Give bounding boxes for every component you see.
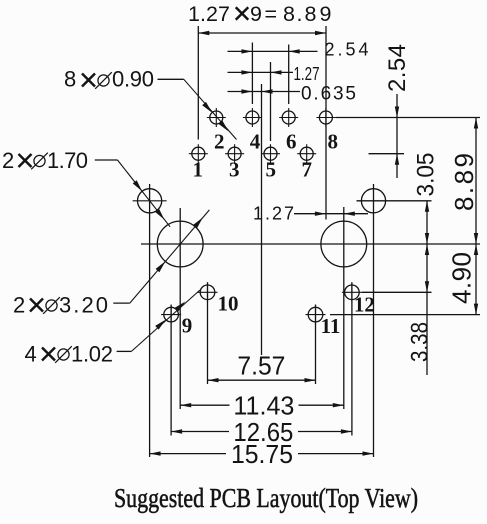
wire center line (261, 84, 263, 355)
svg-text:2: 2 (13, 293, 25, 318)
leader 2x1.70 to hole (95, 160, 170, 227)
pad number 2 (214, 130, 225, 154)
pad number 1 (193, 158, 204, 182)
pad number 9 (182, 314, 193, 338)
pad number 12 (354, 293, 375, 317)
svg-text:7.57: 7.57 (237, 350, 285, 380)
pad number 7 (302, 158, 313, 182)
wire extension line pad4 column (251, 43, 253, 105)
dimension line 11.43 (180, 403, 344, 407)
dimension line 7.57 (208, 378, 316, 382)
pad 3 (225, 144, 244, 163)
dimension line 15.75 (150, 451, 374, 455)
svg-text:1.27: 1.27 (294, 64, 320, 84)
svg-text:12: 12 (354, 293, 375, 317)
svg-text:8: 8 (328, 130, 339, 154)
dimension line 12.65 (171, 429, 352, 433)
label 3.38 (407, 322, 434, 362)
pad 7 (297, 144, 316, 163)
svg-text:0.635: 0.635 (301, 84, 356, 105)
dimension line 1.27 pads (228, 70, 294, 74)
svg-text:8: 8 (64, 67, 76, 92)
wire extension line hole 1.70 right column (373, 184, 375, 457)
label 11.43 (233, 391, 294, 421)
svg-text:11: 11 (321, 314, 341, 338)
label 4.90 (446, 252, 476, 304)
hole 3.20 left (157, 221, 203, 267)
wire extension line holes row 244 (141, 243, 480, 245)
svg-text:6: 6 (286, 130, 297, 154)
svg-text:1.02: 1.02 (71, 342, 113, 367)
label 1.27 hole offset (253, 204, 294, 224)
label 3.05 (413, 153, 440, 197)
label 1.27 pads (294, 64, 320, 84)
pad 6 (279, 108, 298, 127)
svg-text:1.27: 1.27 (253, 204, 294, 224)
svg-text:4.90: 4.90 (446, 252, 476, 304)
dimension line 0.635 (228, 89, 301, 93)
wire extension line hole 3.20 left column (179, 208, 181, 409)
svg-text:4: 4 (25, 342, 37, 367)
svg-text:5: 5 (266, 158, 277, 182)
dimension line 2.54 pads (228, 49, 318, 53)
label 2x1.70 (2, 148, 88, 173)
svg-text:0.90: 0.90 (112, 67, 154, 92)
pad number 3 (229, 158, 240, 182)
pad 11 (306, 305, 326, 325)
wire extension line pad8 row (336, 117, 481, 119)
label 2.54 pads (325, 40, 369, 60)
svg-text:1.27: 1.27 (188, 2, 230, 26)
pad 4 (243, 108, 262, 127)
label 8.89 (449, 153, 479, 211)
wire extension line pad11 column (315, 305, 317, 384)
pad 9 (161, 305, 181, 325)
wire extension line row 1357 (369, 153, 405, 155)
leader 2x3.20 to hole (113, 210, 209, 303)
leader 8x0.90 to pad 2 (158, 79, 237, 139)
hole 3.20 right (321, 221, 367, 267)
hole 1.70 right (361, 189, 385, 213)
dimension line 8.89 (474, 118, 478, 315)
svg-text:15.75: 15.75 (231, 439, 293, 469)
wire extension line pad12 column (351, 282, 353, 435)
wire extension line hole 3.20 right column (343, 207, 345, 409)
label 1.27x9=8.89 (188, 2, 331, 26)
wire extension line hole 1.70 right row (357, 200, 432, 202)
svg-text:2.54: 2.54 (325, 40, 369, 60)
pad number 4 (250, 130, 261, 154)
label 2x3.20 (13, 293, 108, 318)
hole 1.70 left (133, 189, 167, 213)
svg-text:9: 9 (182, 314, 193, 338)
wire extension line pad10 column (207, 282, 209, 384)
label 4x1.02 (25, 342, 114, 367)
wire extension line pads 9 11 row (330, 314, 480, 316)
pad number 10 (218, 292, 239, 316)
svg-text:3.05: 3.05 (413, 153, 440, 197)
label 2.54 rows (384, 44, 411, 92)
pad 5 (261, 144, 280, 163)
wire extension line pad6 column (288, 45, 290, 105)
pad number 5 (266, 158, 277, 182)
label 7.57 (237, 350, 285, 380)
wire extension line pad5 column (270, 62, 272, 141)
pad number 8 (328, 130, 339, 154)
svg-text:3: 3 (229, 158, 240, 182)
label 0.635 (301, 84, 356, 105)
svg-text:2: 2 (214, 130, 225, 154)
svg-text:7: 7 (302, 158, 313, 182)
dimension arrows 3.38 (425, 244, 429, 292)
wire extension line pad8 column (325, 26, 327, 220)
pad 12 (342, 282, 362, 302)
svg-text:1.70: 1.70 (47, 148, 88, 173)
wire extension line pad1 column (197, 26, 199, 140)
pad number 11 (321, 314, 341, 338)
pad 10 (198, 282, 218, 302)
pad number 6 (286, 130, 297, 154)
svg-text:3.38: 3.38 (407, 322, 434, 362)
dimension line 3.05 (425, 201, 429, 375)
label 8x0.90 (64, 67, 154, 92)
svg-text:8.89: 8.89 (449, 153, 479, 211)
pad 1 (189, 144, 208, 163)
dimension arrows 4.90 (474, 244, 478, 315)
wire extension line pad12 row (362, 291, 432, 293)
svg-text:3.20: 3.20 (59, 293, 108, 318)
dimension line 1.27 hole offset (294, 212, 368, 216)
dimension line 1.27x9=8.89 (198, 31, 326, 35)
caption (114, 483, 418, 513)
leader 4x1.02 to pad 9 (117, 290, 200, 351)
svg-text:2.54: 2.54 (384, 44, 411, 92)
svg-text:2: 2 (2, 148, 14, 173)
label 12.65 (233, 417, 293, 447)
pad 8 (316, 108, 335, 127)
dimension line 2.54 rows (395, 94, 399, 178)
svg-text:10: 10 (218, 292, 239, 316)
label 15.75 (231, 439, 293, 469)
pad 2 (207, 108, 226, 127)
svg-text:Suggested PCB Layout(Top View): Suggested PCB Layout(Top View) (114, 483, 418, 513)
svg-text:1: 1 (193, 158, 204, 182)
wire extension line hole 1.70 left column (149, 184, 151, 457)
wire extension line pad9 column (170, 305, 172, 436)
svg-text:4: 4 (250, 130, 261, 154)
